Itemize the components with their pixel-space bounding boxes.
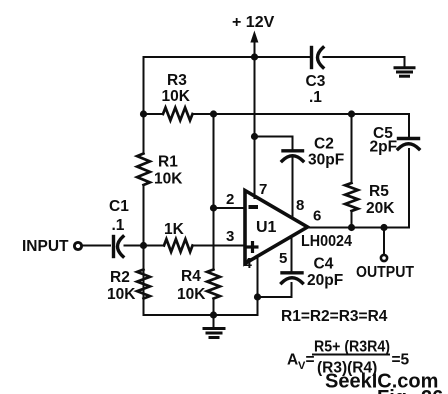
output terminal	[381, 255, 387, 261]
svg-text:C4: C4	[314, 256, 334, 273]
svg-text:2pF: 2pF	[370, 139, 398, 156]
svg-text:C1: C1	[109, 198, 129, 215]
svg-text:4: 4	[244, 255, 253, 272]
wire R5 top	[351, 114, 353, 183]
svg-text:.1: .1	[112, 217, 125, 234]
wire left vertical lower (R1 to bottom rail)	[143, 185, 145, 315]
svg-text:7: 7	[259, 181, 267, 198]
svg-text:C3: C3	[306, 73, 326, 90]
node junction +12V on top rail	[251, 53, 258, 60]
svg-text:INPUT: INPUT	[22, 238, 69, 255]
wire pin 2	[214, 207, 245, 209]
svg-text:R5: R5	[369, 183, 389, 200]
svg-text:R3: R3	[167, 72, 187, 89]
resistor 1K	[164, 239, 193, 252]
wire second rail right segment	[193, 114, 410, 136]
svg-text:20K: 20K	[366, 200, 395, 217]
svg-text:R4: R4	[181, 268, 201, 285]
capacitor C3	[312, 48, 324, 68]
capacitor C2	[282, 151, 303, 161]
resistor R2	[137, 270, 150, 299]
svg-text:30pF: 30pF	[308, 152, 344, 169]
node junction R5 top	[348, 110, 355, 117]
svg-text:OUTPUT: OUTPUT	[356, 264, 414, 281]
svg-text:10K: 10K	[177, 286, 206, 303]
formula fraction bar	[312, 354, 390, 356]
wire left vertical upper (rail to R1)	[143, 57, 145, 154]
svg-text:LH0024: LH0024	[301, 233, 352, 250]
resistor R3	[163, 108, 193, 121]
node junction R5 output	[348, 224, 355, 231]
svg-text:8: 8	[296, 197, 304, 214]
ground bottom	[204, 315, 224, 338]
node junction output terminal	[380, 224, 387, 231]
node junction pin7 C2	[251, 133, 258, 140]
resistor R1	[137, 154, 150, 186]
svg-text:R1=R2=R3=R4: R1=R2=R3=R4	[281, 308, 388, 325]
wire pin 7 drop	[254, 137, 256, 199]
svg-text:6: 6	[313, 208, 321, 225]
wire C1 to 1K	[125, 245, 165, 247]
svg-text:+ 12V: + 12V	[232, 14, 275, 31]
ground top-right	[395, 68, 414, 76]
svg-text:10K: 10K	[107, 286, 136, 303]
svg-text:3: 3	[226, 228, 234, 245]
svg-text:C2: C2	[314, 136, 334, 153]
wire second rail y=114	[144, 113, 164, 115]
svg-text:.1: .1	[309, 89, 322, 106]
wire pin 5	[291, 237, 293, 271]
capacitor C4	[282, 273, 303, 283]
wire 1K to pin 3	[193, 245, 245, 247]
node junction ground	[210, 311, 217, 318]
svg-text:=5: =5	[392, 352, 410, 369]
svg-text:2: 2	[226, 191, 234, 208]
svg-text:Fig: Fig	[377, 387, 407, 394]
wire input to C1	[84, 245, 111, 247]
node junction rail left	[140, 110, 147, 117]
node junction pin 2	[210, 204, 217, 211]
capacitor C5	[398, 139, 419, 150]
node junction R3 right	[210, 110, 217, 117]
svg-text:5: 5	[279, 250, 287, 267]
wire C2 to pin 8	[292, 157, 294, 217]
wire top rail right of C3 to ground	[324, 57, 405, 67]
svg-text:20pF: 20pF	[307, 272, 343, 289]
svg-text:U1: U1	[256, 219, 277, 236]
node junction pin 4 / C4	[254, 293, 261, 300]
svg-text:R1: R1	[158, 154, 178, 171]
wire bottom rail	[144, 256, 258, 315]
resistor R4	[207, 270, 220, 299]
svg-text:10K: 10K	[154, 171, 183, 188]
wire C2 branch top	[255, 137, 293, 150]
wire vertical x=213.5 (pin2 node to R4)	[213, 208, 215, 270]
wire R4 bottom	[213, 299, 215, 316]
wire R5 bottom	[351, 211, 353, 228]
wire output	[308, 227, 409, 229]
node junction input	[140, 242, 147, 249]
svg-text:R2: R2	[110, 269, 130, 286]
op-amp U1	[245, 191, 308, 264]
svg-text:A: A	[287, 352, 298, 369]
input terminal	[74, 242, 81, 249]
wire +12V supply vertical	[254, 41, 256, 137]
op-amp plus sign	[247, 241, 259, 253]
svg-text:1K: 1K	[164, 221, 185, 238]
power +12V arrow	[250, 31, 258, 43]
svg-text:R5+ (R3R4): R5+ (R3R4)	[314, 339, 390, 356]
resistor R5	[345, 183, 358, 211]
wire output terminal drop	[383, 228, 385, 254]
wire +12V top rail left segment	[144, 56, 311, 58]
svg-text:26: 26	[421, 387, 443, 394]
wire vertical x=213.5 (R3 node to pin2 node)	[213, 114, 215, 208]
wire C5 drop	[408, 149, 410, 228]
wire C4 bottom link	[258, 283, 292, 297]
op-amp minus sign	[249, 205, 259, 209]
svg-text:10K: 10K	[162, 88, 191, 105]
capacitor C1	[114, 237, 124, 257]
